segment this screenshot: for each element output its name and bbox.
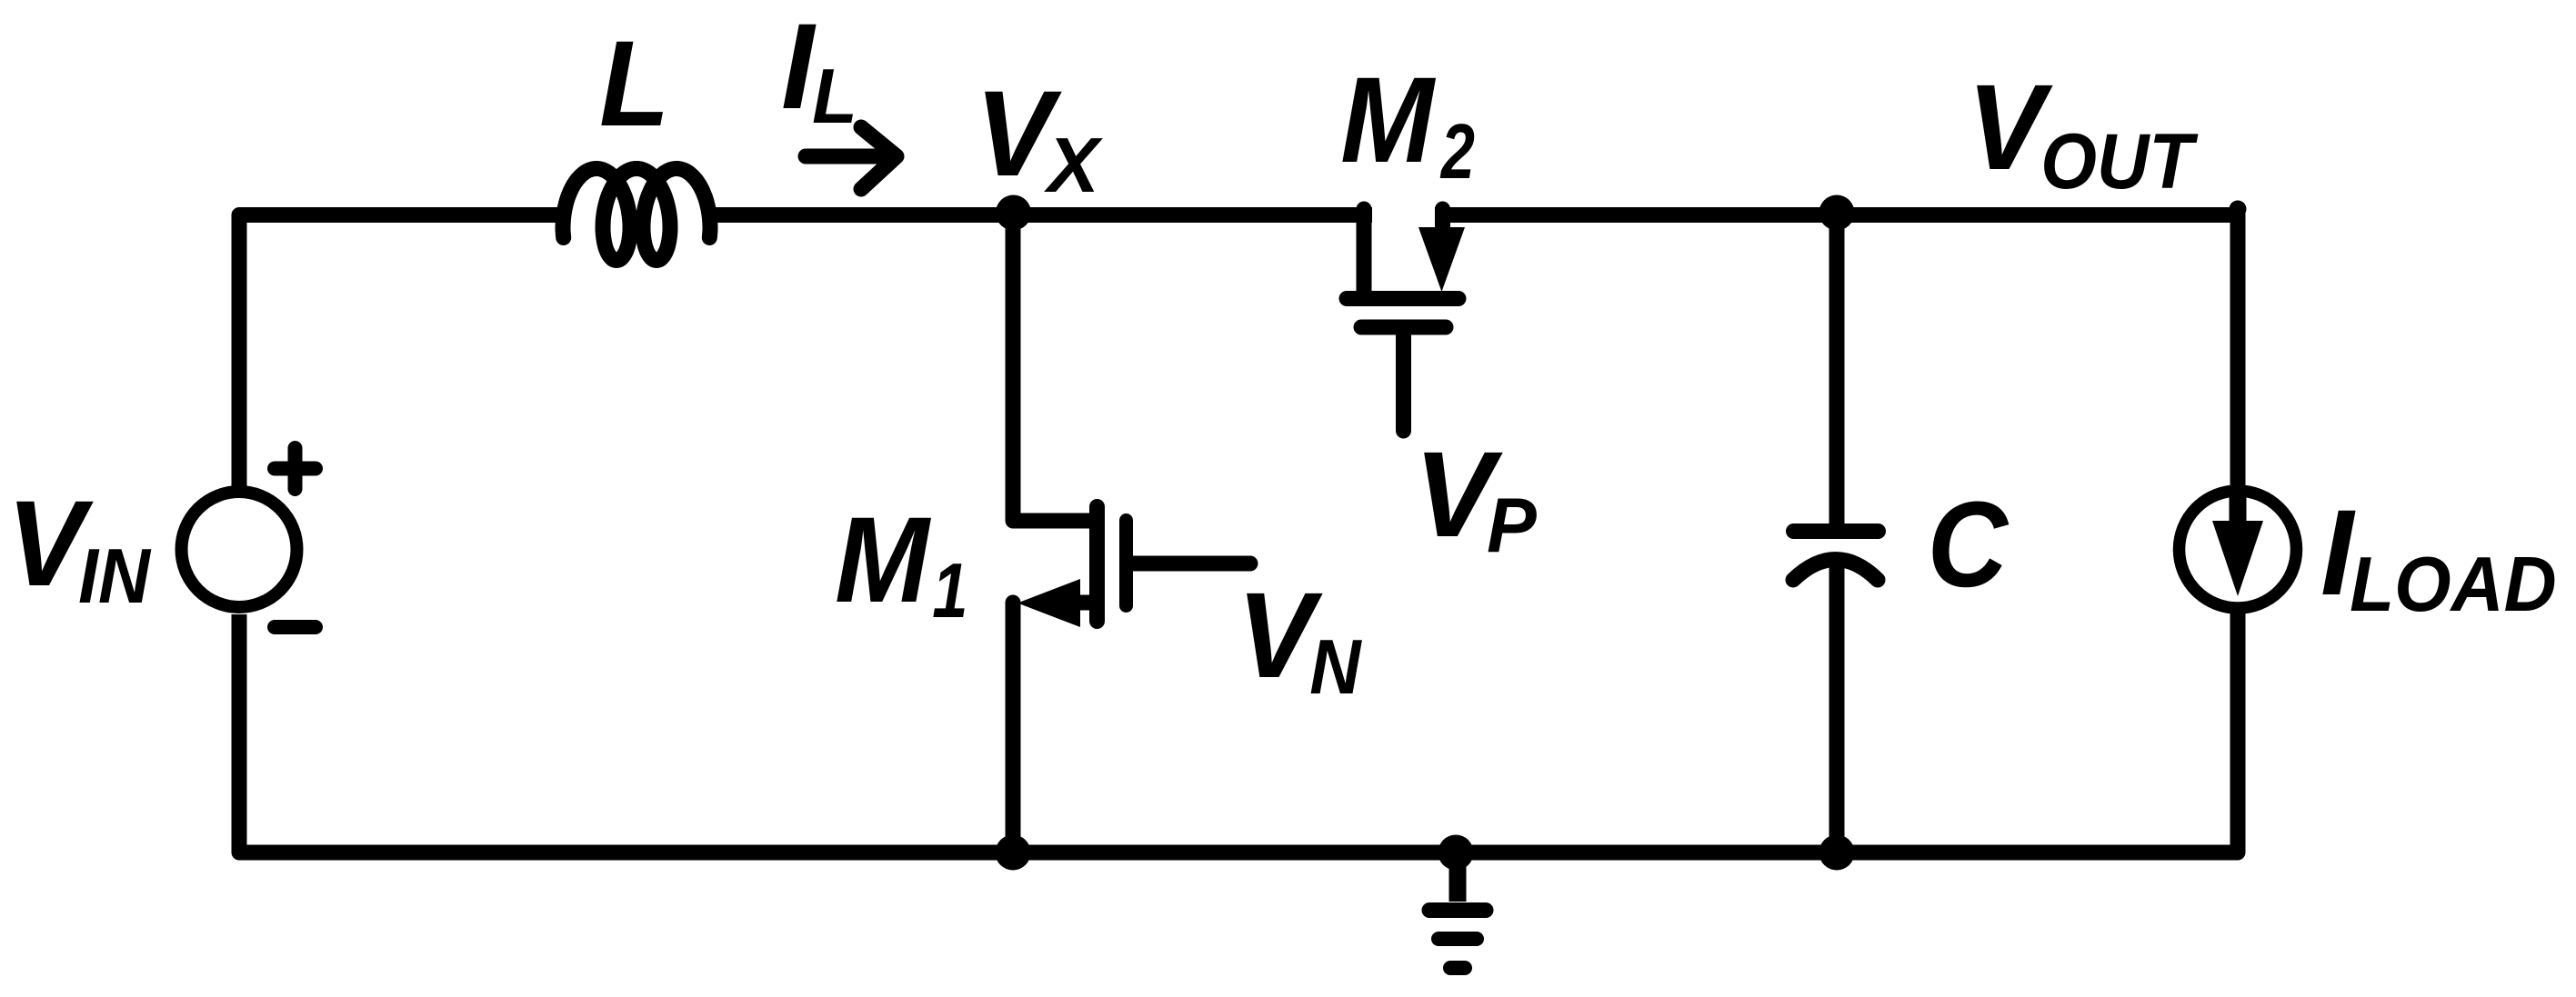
M2 source arrow (1418, 227, 1465, 292)
transistor M1 (NMOS low-side) (996, 215, 1251, 871)
svg-text:2: 2 (1439, 109, 1475, 194)
M2 channel bar (1347, 291, 1458, 306)
wire: node VX to M2 drain (1013, 207, 1372, 223)
transistor M2 (high-side pass device) (1347, 209, 1465, 431)
junction: C bottom at ground rail (1819, 835, 1855, 871)
svg-text:L: L (812, 53, 857, 139)
M2 source stub from VOUT rail (1435, 209, 1450, 233)
svg-text:P: P (1487, 482, 1537, 569)
ground bar 2 (1438, 932, 1477, 946)
voltage source VIN (182, 448, 316, 627)
capacitor C (1793, 195, 1879, 871)
M2 gate wire (1396, 329, 1411, 431)
inductor L (563, 169, 710, 261)
node VX junction dot (996, 195, 1031, 231)
C top wire (1829, 214, 1845, 523)
ILOAD arrow shaft (2230, 488, 2247, 527)
wire: VIN- down, bottom rail, up to ILOAD (239, 611, 2238, 852)
VIN plus sign (275, 448, 316, 489)
M2 drain drop from VX rail (1357, 209, 1372, 291)
arrow IL (inductor current) (806, 127, 897, 189)
svg-text:C: C (1928, 477, 2010, 613)
C bottom plate (curved) (1793, 560, 1878, 581)
M1 drain wire from VX (1013, 215, 1094, 522)
svg-text:L: L (599, 15, 669, 152)
ground stub (1449, 852, 1467, 902)
C top plate (1794, 523, 1879, 539)
svg-text:X: X (1044, 123, 1103, 209)
wire: VIN+ up and top-left to inductor L (239, 215, 568, 489)
svg-text:M: M (1340, 52, 1436, 188)
ground junction dot (1438, 835, 1474, 871)
current source ILOAD (2180, 488, 2297, 608)
svg-text:IN: IN (78, 533, 152, 619)
svg-text:N: N (1309, 624, 1362, 711)
svg-text:OUT: OUT (2040, 117, 2199, 205)
M1 channel bar (1089, 507, 1105, 622)
M1 source wire down to ground rail (1006, 603, 1021, 852)
M1 source arrow (1017, 579, 1080, 627)
C bottom wire (1829, 562, 1845, 852)
svg-text:1: 1 (932, 547, 967, 634)
ILOAD arrow head (2212, 521, 2263, 596)
ground symbol (1429, 835, 1486, 969)
M1 gate wire (1128, 556, 1250, 572)
junction: C top at VOUT rail (1819, 195, 1855, 231)
junction nub at VOUT corner (2230, 201, 2247, 218)
VIN minus sign (275, 620, 316, 634)
wire: M2 source to VOUT corner and down to ILOAD (1435, 215, 2238, 489)
svg-text:LOAD: LOAD (2350, 541, 2557, 628)
svg-text:M: M (835, 493, 931, 628)
M1 gate bar (1119, 521, 1133, 606)
ground bar 3 (1450, 961, 1465, 975)
junction: M1 source at bottom rail (996, 835, 1031, 871)
wire: inductor L to node VX (706, 207, 1013, 223)
ground bar 1 (1429, 902, 1486, 918)
M1 source stub (1078, 595, 1094, 611)
M2 gate bar (1361, 320, 1446, 335)
svg-text:I: I (781, 0, 816, 135)
